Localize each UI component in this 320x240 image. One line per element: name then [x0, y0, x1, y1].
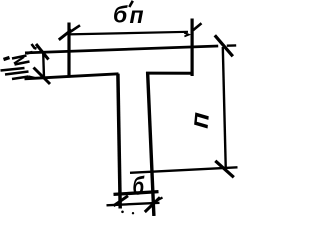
svg-text:б: б — [133, 170, 145, 200]
svg-text:б: б — [113, 2, 128, 28]
svg-text:п: п — [130, 2, 144, 28]
svg-text:п: п — [184, 111, 215, 130]
